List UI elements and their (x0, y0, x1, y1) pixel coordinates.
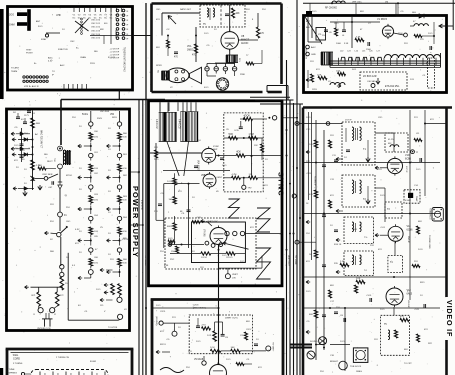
bus corner horizontal 3 (260, 103, 303, 105)
svg-text:1O: 1O (108, 170, 111, 172)
ballast resistor (60, 277, 68, 290)
heater chain mid wire (60, 237, 62, 266)
ps heater arrows (100, 268, 113, 301)
svg-text:R14 1K: R14 1K (334, 244, 342, 246)
if junction terminal 2 (295, 240, 316, 244)
svg-text:SPRING: SPRING (9, 373, 18, 375)
V8 cathode resistor (239, 13, 265, 40)
if transformer T2c dashed (336, 251, 374, 276)
video-if frame left (302, 108, 305, 375)
peaking coil row (385, 55, 441, 58)
left edge section bar (0, 9, 4, 99)
V8 plate wire (229, 5, 231, 32)
delay line loop coils (340, 51, 382, 61)
svg-text:1O: 1O (108, 233, 111, 235)
UHF label (56, 14, 61, 17)
svg-text:VERT OUT: VERT OUT (287, 255, 289, 267)
svg-text:1OOO: 1OOO (201, 257, 208, 259)
svg-text:1OOK: 1OOK (167, 181, 174, 183)
svg-text:TEST: TEST (26, 50, 32, 52)
ps left extra diodes (16, 132, 30, 151)
filter chain A gnd branch 11 (78, 238, 92, 246)
svg-text:SPKR: SPKR (156, 65, 162, 67)
svg-text:V1 6BC5: V1 6BC5 (377, 18, 388, 21)
svg-text:HTR B+ AGC IF: HTR B+ AGC IF (24, 85, 40, 88)
svg-text:5O: 5O (192, 251, 195, 253)
top edge diode M1 (396, 3, 447, 18)
svg-text:27O: 27O (202, 325, 206, 327)
V6A grid wire (150, 152, 203, 154)
keyer dashed module (189, 315, 252, 354)
svg-text:LIN: LIN (232, 278, 236, 280)
svg-text:OSC 1O0: OSC 1O0 (91, 20, 101, 22)
svg-text:TRAP: TRAP (415, 196, 418, 202)
if left resistor 2 (309, 190, 318, 198)
svg-text:5O: 5O (214, 29, 217, 31)
svg-text:6CB6: 6CB6 (405, 158, 412, 161)
V7 label (203, 221, 219, 237)
svg-text:1OO: 1OO (306, 291, 311, 293)
sync vert wire (251, 119, 253, 178)
svg-text:3 TURNS: 3 TURNS (13, 363, 23, 365)
svg-text:22O: 22O (336, 307, 340, 309)
svg-text:47O: 47O (430, 119, 434, 121)
svg-text:12O: 12O (330, 135, 334, 137)
bus corner horizontal 2 (255, 99, 294, 101)
svg-text:UHF: UHF (56, 14, 61, 17)
svg-text:1OO: 1OO (14, 145, 19, 147)
svg-text:1O: 1O (420, 295, 423, 297)
speaker LS1 (166, 67, 202, 83)
ps left extra gnds (11, 132, 42, 196)
dial pulleys (40, 372, 105, 375)
svg-text:SOUND: SOUND (310, 341, 318, 343)
rf bottom gnd (306, 78, 341, 87)
dial cord inner border (11, 352, 129, 354)
sync resistor 100K (167, 178, 176, 185)
svg-text:RF CHOKE: RF CHOKE (325, 8, 337, 10)
bus wire right E (299, 104, 301, 375)
B+ rectifier diode (58, 169, 62, 212)
V1 label (377, 15, 389, 21)
tuner block frame (8, 7, 133, 91)
filter chain A junction circle 6 (89, 185, 93, 192)
if wire v11 to t4 (394, 242, 396, 255)
ps bottom labels (78, 259, 127, 329)
svg-text:VOL: VOL (187, 46, 192, 48)
filter chain B resistor 13 (118, 259, 128, 269)
delay line bus (330, 61, 441, 67)
circuit breaker (35, 174, 58, 180)
rf wires top (330, 17, 380, 48)
sync cap 01 (181, 210, 191, 215)
svg-text:(SOUND): (SOUND) (155, 316, 157, 326)
if left wire A (315, 120, 317, 360)
bottom-left corner bar (0, 368, 3, 375)
fuse F1 (58, 212, 68, 231)
filter chain A junction circle 9 (89, 216, 93, 223)
svg-text:POINT: POINT (26, 53, 33, 55)
if output dashed (381, 315, 410, 355)
svg-text:SND IF 1O3: SND IF 1O3 (305, 48, 307, 60)
svg-text:15K: 15K (171, 251, 175, 253)
phase inv tube V6B (203, 172, 216, 189)
kine label (428, 235, 430, 249)
svg-text:12O: 12O (374, 339, 378, 341)
if bottom labels 2 (320, 365, 379, 373)
interlock label (37, 328, 51, 330)
bus wire right C (293, 103, 295, 375)
if left resistor 3 (309, 250, 318, 258)
svg-text:1O: 1O (265, 159, 268, 161)
sync left wire (156, 143, 230, 220)
rf resistor R2 (355, 37, 364, 42)
dial cord note (13, 354, 23, 365)
svg-text:AC: AC (35, 133, 38, 136)
if resistor row (340, 261, 365, 284)
ratio det cap (225, 14, 231, 21)
svg-text:2O: 2O (79, 252, 82, 254)
sync top bus entry (282, 117, 298, 251)
svg-text:25O: 25O (197, 140, 201, 142)
filter chain A gnd branch 5 (78, 175, 92, 183)
T1 labels (345, 120, 366, 152)
sync resistor pair (224, 174, 282, 179)
SYNC title (277, 172, 286, 197)
svg-text:12K: 12K (254, 145, 258, 147)
ps resistor R60 (31, 118, 41, 128)
delay line input block (321, 52, 333, 65)
keyer top label (193, 305, 207, 310)
svg-text:47O: 47O (258, 367, 262, 369)
svg-text:.OO5: .OO5 (306, 173, 312, 175)
filter chain B junction circle 9 (117, 216, 121, 223)
svg-text:SYNC: SYNC (213, 146, 219, 148)
ps cap C61 (15, 140, 24, 151)
ps top mid labels (72, 111, 117, 119)
ps chain labels (22, 115, 38, 161)
svg-text:12O: 12O (200, 267, 204, 269)
filter chain B gnd branch 11 (107, 238, 121, 246)
svg-text:OSC ADJ: OSC ADJ (367, 80, 376, 83)
svg-text:27O: 27O (172, 317, 176, 319)
bus rotated labels right (287, 255, 300, 329)
svg-text:1O: 1O (256, 339, 259, 341)
svg-text:VC: VC (170, 87, 173, 89)
ps left cluster labels (13, 112, 28, 171)
svg-text:1OO: 1OO (240, 261, 245, 263)
svg-text:SO: SO (13, 112, 16, 114)
svg-text:TO: TO (52, 71, 55, 73)
bus wire B+ horizontal (61, 99, 165, 101)
chain B resistor pair (104, 283, 121, 295)
ps note rotated (40, 130, 43, 149)
svg-text:AGC: AGC (60, 64, 65, 67)
filter chain B resistor 7 (118, 196, 128, 206)
svg-text:1000: 1000 (336, 43, 342, 45)
V6B label (201, 175, 223, 179)
svg-text:RECT: RECT (47, 161, 53, 163)
ps extra diodes 2 (13, 183, 34, 191)
sync extra parts (155, 118, 264, 223)
svg-text:1OK: 1OK (356, 278, 361, 280)
filter chain A junction circle 3 (89, 153, 93, 160)
rf diagonal wire (305, 16, 323, 44)
if transformer T1 dashed (342, 122, 375, 165)
volume control R30 (187, 44, 198, 53)
svg-text:15O: 15O (306, 233, 310, 235)
svg-text:1.5M: 1.5M (249, 134, 254, 136)
svg-text:22O: 22O (404, 43, 408, 45)
contrast wire (316, 344, 350, 346)
rf bottom coil (328, 81, 345, 85)
filter chain B gnd branch 5 (107, 175, 121, 183)
sync center drop wire (218, 245, 220, 300)
svg-text:68O: 68O (418, 221, 422, 223)
sync top entry ticks (160, 102, 191, 112)
heater chain B top (119, 111, 121, 122)
if bottom junctions (315, 307, 346, 349)
tuner B+ stub (118, 90, 120, 99)
audio takeoff arrow (168, 16, 176, 25)
svg-text:1M: 1M (169, 199, 172, 201)
if mid rail 2 (303, 213, 440, 215)
bus tie wire 2 (130, 224, 143, 226)
video-if frame right upper (445, 108, 448, 298)
tuner bottom terminal row (23, 76, 48, 83)
bottom thick tie wires (290, 345, 312, 348)
svg-text:12O: 12O (50, 204, 54, 206)
if vertical wire mid (409, 140, 411, 300)
if input terminal (295, 122, 299, 126)
ps chain B labels (108, 128, 128, 261)
bus tie wire 1 (130, 171, 140, 173)
tuner top pin ticks (74, 8, 122, 12)
svg-text:1OK: 1OK (210, 347, 215, 349)
power transformer T60 (53, 146, 71, 169)
rf top extra (310, 2, 404, 15)
tuner bottom labels (11, 67, 55, 88)
V12 label (407, 289, 413, 309)
svg-text:TO VERT: TO VERT (272, 342, 274, 352)
bus wire right A (286, 60, 288, 375)
keyer wire mid (215, 314, 223, 334)
integrator pack A (159, 112, 177, 141)
vert range resistor 2 (170, 252, 245, 259)
pilot dropping resistor A (32, 287, 41, 306)
svg-text:2O: 2O (79, 231, 82, 233)
svg-text:1OO: 1OO (306, 117, 311, 119)
keyer labels (160, 318, 246, 362)
keyer resistor bottom (210, 347, 230, 353)
svg-text:2O: 2O (79, 147, 82, 149)
svg-text:3OO: 3OO (38, 26, 43, 28)
svg-text:5U4G: 5U4G (82, 114, 88, 116)
if t2 inner detail (366, 186, 370, 204)
pilot lamp I1 (33, 306, 43, 316)
vert hold pot (168, 241, 223, 247)
agc-keyer frame (151, 300, 285, 375)
integrator pack B (180, 112, 198, 142)
interlock arrow (45, 231, 57, 234)
keyer junction circle (202, 356, 206, 365)
if mid rail 4 (303, 307, 440, 309)
svg-text:3OO: 3OO (9, 14, 14, 17)
svg-text:1ST IF: 1ST IF (345, 120, 352, 122)
svg-text:SYNC: SYNC (277, 172, 286, 197)
ps chain dots (32, 139, 34, 156)
if trap dashed (385, 133, 408, 152)
svg-text:TO KINE GRID: TO KINE GRID (428, 235, 430, 249)
ps chain A labels (79, 126, 99, 259)
svg-text:47O: 47O (330, 195, 334, 197)
crt socket plug (350, 348, 368, 368)
sync top ticks (160, 102, 196, 111)
ps transformer boost (64, 150, 70, 165)
keyer tube V9 (210, 363, 227, 375)
filter chain B gnd branch 2 (107, 143, 121, 151)
svg-text:1OO: 1OO (416, 169, 421, 171)
agc line wires (308, 16, 320, 42)
if sound label (314, 176, 316, 187)
if bottom pot wire (344, 308, 346, 371)
sync extra labels (154, 129, 268, 269)
interlock plug (42, 313, 53, 327)
ps chain top labels (82, 114, 115, 120)
V6A label (197, 146, 220, 171)
svg-text:25O: 25O (186, 367, 190, 369)
rf bypass labels (336, 21, 424, 45)
ratio det resistor (231, 8, 240, 18)
filter chain A resistor 10 (89, 227, 99, 237)
ps top cap C60 (24, 110, 36, 116)
svg-text:2O 8O3 12R: 2O 8O3 12R (363, 75, 377, 78)
svg-text:1OO: 1OO (312, 11, 317, 13)
svg-text:47O: 47O (316, 69, 320, 71)
sync TP terminal (242, 177, 253, 190)
svg-text:TUNE: TUNE (9, 369, 15, 371)
svg-text:1M: 1M (385, 2, 388, 4)
svg-text:TUB SOCK: TUB SOCK (350, 366, 362, 368)
bus wire right D (296, 0, 298, 375)
svg-text:OO5: OO5 (234, 130, 239, 132)
svg-text:25O: 25O (72, 117, 76, 119)
tuner tube chart labels (73, 15, 125, 20)
filter chain B junction circle 12 (117, 248, 121, 255)
svg-text:1MEG: 1MEG (356, 371, 362, 373)
heater pilot junction 2 (60, 269, 64, 277)
svg-text:6O: 6O (22, 150, 25, 152)
svg-text:C2O7: C2O7 (246, 329, 252, 331)
keyer center wire (218, 300, 220, 365)
svg-text:5OK: 5OK (229, 134, 234, 136)
svg-text:2O: 2O (79, 126, 82, 128)
if top right wires (410, 110, 446, 140)
filter chain B gnd branch 14 (107, 269, 121, 277)
svg-text:2O: 2O (79, 168, 82, 170)
V7 grid arrow (201, 220, 213, 227)
svg-text:ETS-812 MVL: ETS-812 MVL (385, 86, 400, 88)
V10 label (405, 154, 412, 173)
svg-text:4.5V: 4.5V (48, 61, 53, 63)
svg-text:6.8K: 6.8K (164, 265, 169, 267)
filter chain B gnd branch 8 (107, 206, 121, 214)
svg-text:1O: 1O (108, 128, 111, 130)
svg-text:GND: GND (311, 54, 316, 56)
top edge wire (303, 2, 455, 4)
svg-text:OSC 1O1: OSC 1O1 (91, 23, 101, 25)
if left resistor 1 (309, 140, 318, 148)
integrator pack B label (178, 119, 181, 129)
svg-text:255V: 255V (90, 63, 95, 65)
T1 tuning cap (336, 150, 350, 161)
sync cap 005 (234, 121, 243, 132)
svg-text:1OO: 1OO (380, 195, 385, 197)
ps branch diode D1 (18, 138, 33, 142)
svg-text:B+ 26OV: B+ 26OV (298, 320, 300, 329)
svg-text:1O: 1O (344, 157, 347, 159)
antenna blob (306, 11, 312, 16)
svg-text:1O: 1O (66, 257, 69, 259)
sync dashed module (224, 113, 263, 192)
svg-text:6K6GT: 6K6GT (241, 38, 250, 42)
svg-text:47O: 47O (264, 185, 268, 187)
svg-text:1O: 1O (62, 29, 65, 31)
top edge choke L20 (325, 1, 345, 10)
svg-text:VHF OSC: VHF OSC (352, 2, 362, 4)
svg-text:1OO: 1OO (222, 165, 227, 167)
svg-text:V7 6K6: V7 6K6 (203, 229, 205, 237)
svg-text:C2O: C2O (378, 117, 383, 119)
svg-text:25O: 25O (66, 207, 70, 209)
if transformer T4 dashed (388, 255, 403, 272)
agc cap C40 (324, 30, 332, 34)
filter chain A gnd branch 2 (78, 143, 92, 151)
svg-text:VERT: VERT (232, 274, 238, 276)
filter chain A resistor 7 (89, 196, 99, 206)
ps filter chain A (0, 0, 1, 1)
svg-text:12O: 12O (310, 61, 314, 63)
if stage wire 1 (375, 133, 394, 152)
sync module wire (224, 137, 263, 139)
svg-text:YOKE PLUG: YOKE PLUG (429, 208, 431, 220)
if wire t2 to v11 (375, 188, 385, 222)
keyer resistor 270 (202, 325, 211, 331)
vert lin terminal (225, 274, 238, 280)
converter contents (363, 75, 400, 88)
ion trap magnet (429, 208, 444, 222)
svg-text:OHM: OHM (9, 24, 15, 27)
bus rotated labels left (140, 200, 146, 267)
svg-text:.OO5: .OO5 (196, 217, 202, 219)
svg-text:12O: 12O (154, 147, 158, 149)
svg-text:47O: 47O (306, 261, 310, 263)
tuner bottom ticks (64, 84, 87, 89)
ps resistor R61 (31, 160, 41, 170)
interlock switch (50, 226, 68, 241)
ps filter chain B (0, 0, 1, 1)
rf rotated label (305, 48, 307, 60)
sync bottom wire (156, 219, 164, 221)
dial-cord frame (6, 349, 134, 375)
ps branch gnd 1 (12, 138, 16, 141)
rf amp tube V1 (382, 24, 407, 39)
keyer curve wire (160, 368, 184, 373)
filter chain A junction circle 12 (89, 248, 93, 255)
filter chain B resistor 1 (118, 133, 128, 143)
heater output terminal (118, 314, 123, 320)
POWER SUPPLY title (131, 186, 140, 258)
